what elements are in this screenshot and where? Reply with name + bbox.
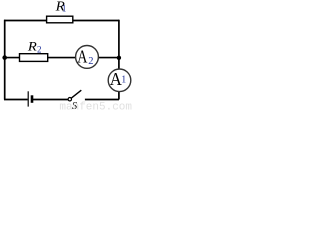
ammeter A2 circle xyxy=(76,46,99,69)
wire bottom middle xyxy=(33,99,68,101)
switch lever xyxy=(71,90,81,98)
wire middle branch xyxy=(5,57,119,59)
battery cell short thick plate xyxy=(31,95,34,103)
resistor R2 box xyxy=(20,54,48,62)
wire top xyxy=(4,20,119,22)
switch S pivot circle xyxy=(68,98,71,101)
svg-text:2: 2 xyxy=(37,44,42,54)
wire right vertical xyxy=(118,20,120,100)
node junction right xyxy=(117,56,121,60)
wire bottom left xyxy=(4,99,28,101)
svg-text:2: 2 xyxy=(88,56,93,67)
ammeter A1 circle xyxy=(108,69,131,92)
wire bottom right xyxy=(85,99,119,101)
node junction left xyxy=(2,55,7,60)
resistor R1 box xyxy=(47,16,73,23)
svg-text:manfen5.com: manfen5.com xyxy=(59,101,132,111)
svg-text:A: A xyxy=(77,48,87,67)
svg-text:1: 1 xyxy=(62,3,67,13)
svg-text:R: R xyxy=(27,39,38,53)
battery cell long plate xyxy=(27,91,29,106)
svg-text:1: 1 xyxy=(121,75,126,86)
wire left vertical xyxy=(4,20,6,100)
